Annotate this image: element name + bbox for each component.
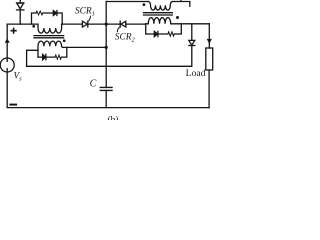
svg-text:SCR1: SCR1 xyxy=(75,6,95,17)
svg-text:C: C xyxy=(90,79,97,90)
svg-text:(b): (b) xyxy=(108,114,119,120)
svg-text:Vs: Vs xyxy=(14,70,23,82)
svg-text:Load: Load xyxy=(186,68,206,79)
svg-text:SCR2: SCR2 xyxy=(115,32,136,43)
